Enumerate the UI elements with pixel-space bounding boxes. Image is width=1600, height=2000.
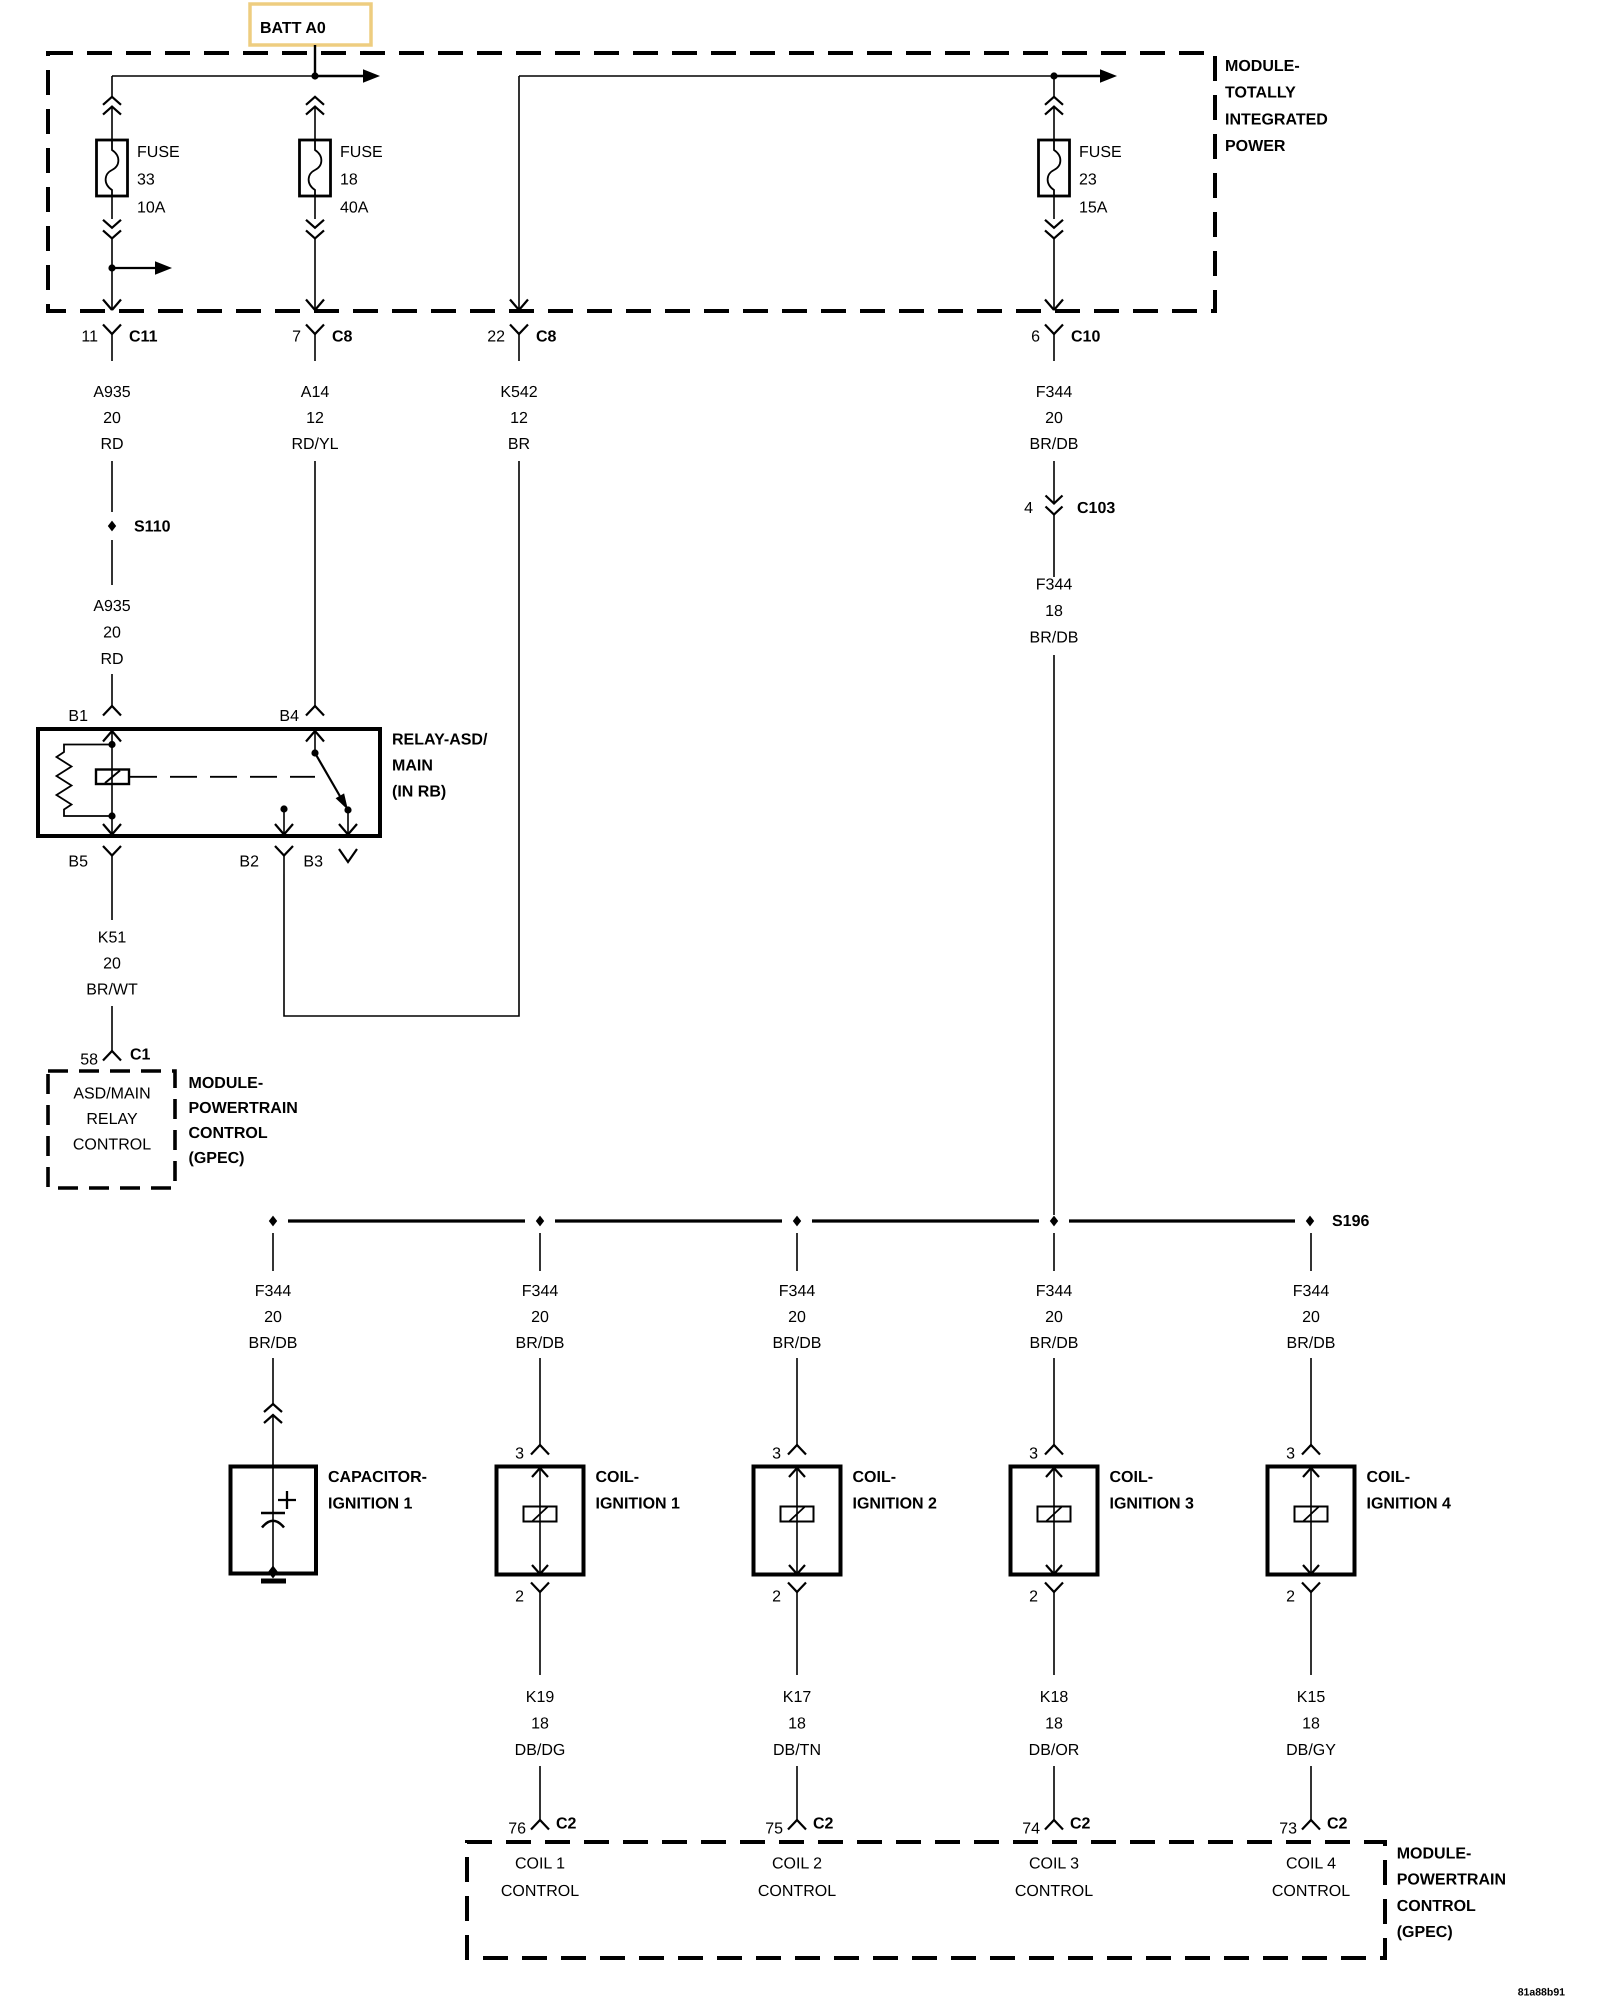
svg-text:DB/TN: DB/TN — [773, 1742, 821, 1759]
wire F344 below C103 — [1053, 515, 1055, 578]
svg-text:BR/DB: BR/DB — [1030, 1335, 1079, 1352]
svg-text:DB/GY: DB/GY — [1286, 1742, 1336, 1759]
svg-text:(IN RB): (IN RB) — [392, 784, 446, 801]
svg-text:POWER: POWER — [1225, 138, 1286, 155]
svg-text:BR/DB: BR/DB — [1287, 1335, 1336, 1352]
svg-text:20: 20 — [103, 625, 121, 642]
svg-text:18: 18 — [531, 1715, 549, 1732]
svg-text:BR/DB: BR/DB — [773, 1335, 822, 1352]
arrowhead - wire exits relay at B5 — [103, 824, 121, 835]
wire stub below S196 (capacitor branch) — [272, 1233, 274, 1271]
coil 3 winding element — [1038, 1507, 1071, 1522]
svg-text:IGNITION 1: IGNITION 1 — [596, 1496, 681, 1513]
arrowhead - wire enters coil 1 — [532, 1468, 548, 1477]
svg-text:INTEGRATED: INTEGRATED — [1225, 111, 1328, 128]
svg-text:F344: F344 — [522, 1283, 559, 1300]
svg-text:F344: F344 — [779, 1283, 816, 1300]
coil 3 internal wire — [1053, 1467, 1055, 1575]
svg-text:15A: 15A — [1079, 199, 1108, 216]
svg-text:BR/DB: BR/DB — [249, 1335, 298, 1352]
wire stub below S196 (coil 3 branch) — [1053, 1233, 1055, 1271]
node junction at fuse 23 feed — [1050, 72, 1057, 79]
relay switch arm — [315, 753, 341, 798]
wire to relay terminal B1 — [111, 674, 113, 706]
svg-text:2: 2 — [1286, 1589, 1295, 1606]
svg-text:F344: F344 — [1036, 577, 1073, 594]
arrowhead - wire exits coil 4 — [1303, 1565, 1319, 1574]
wire K51 upper segment — [111, 874, 113, 920]
arrowhead - wire enters coil 3 — [1046, 1468, 1062, 1477]
svg-text:18: 18 — [340, 172, 358, 189]
coil 4 winding element — [1295, 1507, 1328, 1522]
arrowhead - wire exits coil 1 — [532, 1565, 548, 1574]
relay suppression resistor — [57, 745, 113, 817]
relay linkage dashed line — [130, 776, 315, 778]
fuse F23 element — [1048, 140, 1061, 196]
wire K17 to GPEC — [796, 1766, 798, 1820]
svg-text:20: 20 — [1302, 1309, 1320, 1326]
svg-text:12: 12 — [510, 410, 528, 427]
svg-text:COIL 4: COIL 4 — [1286, 1856, 1336, 1873]
wire to coil 4 pin 3 — [1310, 1358, 1312, 1445]
relay internal stub to B2 — [280, 805, 287, 812]
svg-text:MODULE-: MODULE- — [1397, 1846, 1472, 1863]
module-totally integrated power (TIPM) dashed box — [48, 53, 1215, 311]
wire K15 to GPEC — [1310, 1766, 1312, 1820]
svg-text:20: 20 — [264, 1309, 282, 1326]
svg-text:20: 20 — [103, 410, 121, 427]
capacitor polarity + sign — [278, 1491, 296, 1509]
relay internal wire to B3 — [347, 810, 349, 836]
svg-text:BR/WT: BR/WT — [86, 982, 138, 999]
svg-text:BR/DB: BR/DB — [1030, 436, 1079, 453]
svg-text:20: 20 — [103, 956, 121, 973]
svg-text:C2: C2 — [1327, 1816, 1348, 1833]
svg-text:BR/DB: BR/DB — [516, 1335, 565, 1352]
svg-text:C10: C10 — [1071, 329, 1100, 346]
arrowhead - B1 wire enters relay — [103, 731, 121, 742]
svg-text:20: 20 — [531, 1309, 549, 1326]
svg-text:18: 18 — [1045, 1715, 1063, 1732]
wire A935 upper segment — [111, 461, 113, 512]
battery feed label box BATT A0 — [250, 4, 371, 45]
node junction on fuse 33 output — [108, 264, 115, 271]
wire K542 inside TIPM — [518, 76, 520, 310]
svg-text:2: 2 — [772, 1589, 781, 1606]
wire K19 to GPEC — [539, 1766, 541, 1820]
relay ASD/MAIN box — [38, 729, 380, 836]
svg-text:20: 20 — [1045, 1309, 1063, 1326]
svg-text:CAPACITOR-: CAPACITOR- — [328, 1469, 427, 1486]
svg-text:IGNITION 1: IGNITION 1 — [328, 1496, 413, 1513]
in-line connector chevrons above fuse 18 — [306, 97, 324, 105]
svg-text:A935: A935 — [93, 598, 130, 615]
svg-text:40A: 40A — [340, 199, 369, 216]
svg-text:B1: B1 — [68, 708, 88, 725]
in-line connector chevrons above fuse 33 — [103, 97, 121, 105]
svg-text:K51: K51 — [98, 930, 127, 947]
fuse F33 element — [106, 140, 119, 196]
svg-text:7: 7 — [292, 329, 301, 346]
svg-text:F344: F344 — [1036, 384, 1073, 401]
arrowhead - wire exits relay at B2 — [275, 824, 293, 835]
svg-text:CONTROL: CONTROL — [73, 1136, 151, 1153]
svg-text:74: 74 — [1022, 1821, 1040, 1838]
node junction capacitor to ground — [268, 1566, 278, 1579]
ground symbol — [261, 1579, 286, 1584]
svg-text:18: 18 — [1302, 1715, 1320, 1732]
capacitor element — [261, 1512, 285, 1515]
svg-text:IGNITION 2: IGNITION 2 — [853, 1496, 938, 1513]
svg-text:COIL-: COIL- — [853, 1469, 897, 1486]
splice bus segment 4 — [1069, 1219, 1295, 1222]
relay coil element — [96, 770, 129, 785]
svg-text:A935: A935 — [93, 384, 130, 401]
fuse F23 box — [1039, 140, 1070, 196]
wire fuse 33 bottom lead — [111, 238, 113, 310]
wire stub below S196 (coil 1 branch) — [539, 1233, 541, 1271]
svg-text:RD: RD — [100, 651, 123, 668]
svg-text:F344: F344 — [1293, 1283, 1330, 1300]
wire to coil 1 pin 3 — [539, 1358, 541, 1445]
splice S196 junction 4 — [1050, 1216, 1058, 1227]
node junction switch throw at B3 — [344, 806, 351, 813]
in-line connector chevrons below fuse 23 — [1053, 196, 1055, 219]
svg-text:3: 3 — [1286, 1446, 1295, 1463]
svg-text:F344: F344 — [255, 1283, 292, 1300]
wire - TIPM internal bus right (feed to fuse 23) — [519, 75, 1054, 77]
svg-text:73: 73 — [1279, 1821, 1297, 1838]
svg-text:CONTROL: CONTROL — [1397, 1898, 1476, 1915]
svg-text:COIL-: COIL- — [596, 1469, 640, 1486]
arrowhead - wire enters coil 2 — [789, 1468, 805, 1477]
svg-text:CONTROL: CONTROL — [501, 1883, 579, 1900]
svg-text:COIL 1: COIL 1 — [515, 1856, 565, 1873]
svg-text:18: 18 — [788, 1715, 806, 1732]
node junction at fuse 18 feed — [311, 72, 318, 79]
svg-text:B3: B3 — [303, 854, 323, 871]
svg-text:CONTROL: CONTROL — [1015, 1883, 1093, 1900]
splice bus segment 2 — [555, 1219, 782, 1222]
wire to capacitor — [272, 1358, 274, 1404]
svg-text:S196: S196 — [1332, 1213, 1369, 1230]
svg-text:COIL-: COIL- — [1367, 1469, 1411, 1486]
splice S196 junction 1 — [269, 1216, 277, 1227]
svg-text:B2: B2 — [239, 854, 259, 871]
svg-text:RELAY-ASD/: RELAY-ASD/ — [392, 732, 488, 749]
svg-text:2: 2 — [1029, 1589, 1038, 1606]
svg-text:RELAY: RELAY — [86, 1111, 138, 1128]
wire fuse 23 bottom lead — [1053, 238, 1055, 310]
wire to coil 3 pin 3 — [1053, 1358, 1055, 1445]
svg-text:4: 4 — [1024, 500, 1033, 517]
arrow - battery feed continuation far right — [1054, 75, 1102, 78]
arrowhead - wire exits coil 2 — [789, 1565, 805, 1574]
svg-text:(GPEC): (GPEC) — [189, 1150, 245, 1167]
node junction coil top — [108, 741, 115, 748]
arrowhead - wire enters coil 4 — [1303, 1468, 1319, 1477]
in-line connector chevrons below fuse 33 — [111, 196, 113, 219]
splice S196 junction 3 — [793, 1216, 801, 1227]
svg-text:C8: C8 — [536, 329, 557, 346]
arrowhead - fuse 33 wire exits TIPM — [103, 300, 121, 311]
in-line connector chevrons below fuse 18 — [314, 196, 316, 219]
fuse F18 box — [300, 140, 331, 196]
svg-text:BR/DB: BR/DB — [1030, 630, 1079, 647]
svg-text:(GPEC): (GPEC) — [1397, 1924, 1453, 1941]
svg-text:POWERTRAIN: POWERTRAIN — [1397, 1872, 1506, 1889]
svg-text:A14: A14 — [301, 384, 330, 401]
svg-text:23: 23 — [1079, 172, 1097, 189]
arrowhead - B4 wire enters relay — [306, 731, 324, 742]
coil 2 internal wire — [796, 1467, 798, 1575]
svg-text:BATT A0: BATT A0 — [260, 20, 326, 37]
svg-text:FUSE: FUSE — [1079, 144, 1122, 161]
svg-text:C11: C11 — [129, 329, 158, 346]
wire A14 to relay terminal B4 — [314, 461, 316, 706]
svg-text:3: 3 — [1029, 1446, 1038, 1463]
coil 2 winding element — [781, 1507, 814, 1522]
wire K51 lower segment — [111, 1006, 113, 1051]
wire K542 from relay B2 to connector C8 pin 22 — [284, 461, 519, 1016]
svg-text:RD: RD — [100, 436, 123, 453]
splice S196 junction 2 — [536, 1216, 544, 1227]
arrowhead - fuse 23 wire exits TIPM — [1045, 300, 1063, 311]
wire F344 to C103 — [1053, 461, 1055, 504]
svg-text:C2: C2 — [813, 1816, 834, 1833]
svg-text:C2: C2 — [556, 1816, 577, 1833]
splice bus segment 1 — [288, 1219, 525, 1222]
svg-text:3: 3 — [515, 1446, 524, 1463]
module-powertrain control (GPEC) dashed box - ASD/MAIN relay control — [48, 1071, 175, 1188]
svg-text:CONTROL: CONTROL — [1272, 1883, 1350, 1900]
wire stub below S196 (coil 2 branch) — [796, 1233, 798, 1271]
wire K18 to GPEC — [1053, 1766, 1055, 1820]
svg-text:COIL 3: COIL 3 — [1029, 1856, 1079, 1873]
module-powertrain control (GPEC) dashed box - coil drivers — [467, 1842, 1385, 1958]
wire fuse 33 top lead — [111, 76, 113, 97]
splice bus segment 3 — [812, 1219, 1039, 1222]
svg-text:TOTALLY: TOTALLY — [1225, 85, 1296, 102]
svg-text:81a88b91: 81a88b91 — [1518, 1987, 1565, 1999]
wire - TIPM internal bus left (node to fuse 33 and fuse 18) — [112, 75, 315, 77]
arrowhead - K542 wire exits TIPM — [510, 300, 528, 311]
svg-text:MODULE-: MODULE- — [1225, 58, 1300, 75]
capacitor internal lead — [272, 1467, 274, 1574]
svg-text:POWERTRAIN: POWERTRAIN — [189, 1100, 298, 1117]
wire to coil 2 pin 3 — [796, 1358, 798, 1445]
coil-ignition 3 box — [1011, 1467, 1098, 1575]
svg-text:MODULE-: MODULE- — [189, 1075, 264, 1092]
splice S196 junction 5 — [1306, 1216, 1314, 1227]
coil-ignition 2 box — [754, 1467, 841, 1575]
wire A935 lower segment — [111, 540, 113, 585]
svg-text:C2: C2 — [1070, 1816, 1091, 1833]
wire stub below S196 (coil 4 branch) — [1310, 1233, 1312, 1271]
svg-text:C8: C8 — [332, 329, 353, 346]
svg-text:75: 75 — [765, 1821, 783, 1838]
svg-text:22: 22 — [487, 329, 505, 346]
in-line connector chevrons above capacitor — [264, 1404, 282, 1412]
wire fuse 23 top lead — [1053, 76, 1055, 97]
svg-text:COIL-: COIL- — [1110, 1469, 1154, 1486]
svg-text:DB/DG: DB/DG — [515, 1742, 566, 1759]
svg-text:K17: K17 — [783, 1689, 812, 1706]
svg-text:76: 76 — [508, 1821, 526, 1838]
svg-text:33: 33 — [137, 172, 155, 189]
svg-text:B4: B4 — [279, 708, 299, 725]
capacitor C-ignition-1 box — [231, 1467, 317, 1574]
coil-ignition 1 box — [497, 1467, 584, 1575]
svg-text:IGNITION 3: IGNITION 3 — [1110, 1496, 1195, 1513]
wire from BATT A0 into TIPM — [314, 45, 316, 76]
node junction switch pivot — [311, 749, 318, 756]
svg-text:CONTROL: CONTROL — [758, 1883, 836, 1900]
svg-text:RD/YL: RD/YL — [291, 436, 338, 453]
svg-text:3: 3 — [772, 1446, 781, 1463]
svg-text:COIL 2: COIL 2 — [772, 1856, 822, 1873]
coil-ignition 4 box — [1268, 1467, 1355, 1575]
svg-text:C1: C1 — [130, 1047, 151, 1064]
wire fuse 18 bottom lead — [314, 238, 316, 310]
in-line connector chevrons above fuse 23 — [1045, 97, 1063, 105]
svg-text:CONTROL: CONTROL — [189, 1125, 268, 1142]
svg-text:20: 20 — [1045, 410, 1063, 427]
fuse F33 box — [97, 140, 128, 196]
wire F344 long run to splice S196 — [1053, 655, 1055, 1215]
svg-text:K542: K542 — [500, 384, 537, 401]
node junction coil bottom — [108, 812, 115, 819]
arrowhead - wire exits relay at B3 — [339, 824, 357, 835]
relay coil supply wire (B1 to B5 through coil) — [111, 729, 113, 836]
svg-text:FUSE: FUSE — [137, 144, 180, 161]
svg-text:20: 20 — [788, 1309, 806, 1326]
svg-text:S110: S110 — [134, 519, 171, 536]
relay switch common wire from B4 — [314, 729, 316, 753]
coil 4 internal wire — [1310, 1467, 1312, 1575]
svg-text:6: 6 — [1031, 329, 1040, 346]
arrowhead - fuse 18 wire exits TIPM — [306, 300, 324, 311]
arrow - fused feed tap to right — [112, 267, 157, 269]
svg-text:FUSE: FUSE — [340, 144, 383, 161]
svg-text:11: 11 — [81, 329, 98, 346]
svg-text:K15: K15 — [1297, 1689, 1326, 1706]
arrow - battery feed continuation right — [315, 75, 365, 78]
coil 1 winding element — [524, 1507, 557, 1522]
svg-text:BR: BR — [508, 436, 530, 453]
svg-text:18: 18 — [1045, 603, 1063, 620]
svg-text:MAIN: MAIN — [392, 758, 433, 775]
arrowhead - wire exits coil 3 — [1046, 1565, 1062, 1574]
fuse F18 element — [309, 140, 322, 196]
svg-text:12: 12 — [306, 410, 324, 427]
svg-text:B5: B5 — [68, 854, 88, 871]
svg-text:C103: C103 — [1077, 500, 1115, 517]
svg-text:K18: K18 — [1040, 1689, 1069, 1706]
svg-text:10A: 10A — [137, 199, 166, 216]
svg-text:F344: F344 — [1036, 1283, 1073, 1300]
svg-text:ASD/MAIN: ASD/MAIN — [73, 1086, 150, 1103]
coil 1 internal wire — [539, 1467, 541, 1575]
svg-text:IGNITION 4: IGNITION 4 — [1367, 1496, 1452, 1513]
svg-text:K19: K19 — [526, 1689, 555, 1706]
splice S110 — [108, 521, 116, 532]
svg-text:2: 2 — [515, 1589, 524, 1606]
svg-text:DB/OR: DB/OR — [1029, 1742, 1080, 1759]
svg-text:58: 58 — [80, 1052, 98, 1069]
